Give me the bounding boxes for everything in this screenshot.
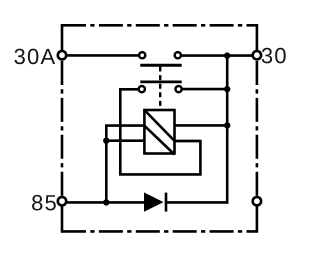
wire: coil right lower lead (y=141)	[175, 140, 201, 143]
diode D1 (flyback)	[145, 193, 167, 212]
junction: 85 wire / coil left	[103, 199, 109, 205]
wire: terminal 85 to diode anode (y=202.4)	[62, 201, 146, 204]
relay coil diagonal 1	[144, 110, 174, 141]
terminal 30	[253, 51, 261, 59]
wire: switch contact to terminal 30 (y=55.6)	[181, 54, 257, 57]
wire: coil left upper lead (y=125.6)	[106, 126, 144, 203]
contact circle row1 left	[139, 52, 145, 58]
actuator dashed link	[159, 67, 161, 110]
relay enclosure boundary: left edge upper solid piece	[61, 24, 64, 50]
switch bridge bar 2 (NC)	[140, 81, 181, 84]
wire: coil right upper lead (y=124.8)	[175, 124, 228, 127]
terminal 85	[58, 197, 66, 205]
contact circle row2 right	[176, 86, 182, 92]
contact circle row2 left	[139, 86, 145, 92]
junction: coil left leads	[103, 138, 109, 144]
wire: coil left lower lead (y=140.7)	[106, 139, 144, 142]
relay enclosure dash-dot boundary: bottom edge	[62, 230, 257, 233]
junction: NC right on 30 rail	[224, 86, 230, 92]
relay enclosure boundary: left edge dash-dot middle	[61, 61, 64, 196]
switch bridge bar 1 (NO)	[140, 64, 181, 67]
relay coil K1 body	[144, 110, 174, 154]
wire: terminal 30A to switch contact (y=55.4)	[62, 54, 139, 57]
junction: node 30 top	[224, 52, 230, 58]
terminal unlabeled (86)	[253, 197, 261, 205]
terminal 30A	[58, 51, 66, 59]
wire: NC contact left lead (y=89.3)	[120, 89, 200, 174]
relay enclosure dash-dot boundary: top edge	[62, 24, 257, 27]
label 30	[262, 48, 286, 64]
wire: 30 rail vertical (x=227.2)	[226, 56, 229, 204]
label 30A	[14, 49, 55, 65]
wire: diode cathode to 30 rail (y=202.4)	[165, 201, 229, 204]
label 85	[32, 195, 56, 211]
relay coil diagonal 2	[144, 126, 174, 155]
contact circle row1 right	[175, 52, 181, 58]
relay enclosure boundary: right edge dash-dot middle	[256, 61, 259, 196]
relay enclosure boundary: right edge lower solid piece	[256, 207, 259, 233]
relay enclosure boundary: left edge lower solid piece	[61, 207, 64, 233]
wire: NC contact right lead (y=89.1)	[181, 88, 227, 91]
junction: coil right on 30 rail	[224, 122, 230, 128]
relay enclosure boundary: right edge upper solid piece	[256, 24, 259, 50]
